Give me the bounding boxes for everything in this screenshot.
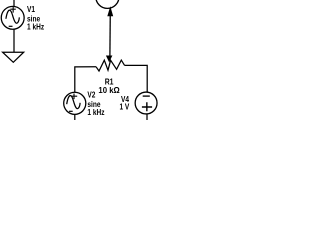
svg-text:1 V: 1 V [119,102,129,112]
wire V1 top stub [13,0,15,7]
wire R1 right vertical [125,65,148,92]
ground [3,52,24,62]
voltage source V4 (DC) [135,92,157,114]
wire V1 to ground [13,29,15,52]
wire R1 left vertical [75,67,96,92]
svg-text:1 kHz: 1 kHz [87,107,104,117]
svg-text:1 kHz: 1 kHz [27,22,44,32]
svg-text:10 kΩ: 10 kΩ [98,86,120,95]
wiper arrow (double-headed) [106,6,113,62]
wire V4 bottom stub [146,114,148,120]
resistor R1 zigzag [96,60,125,71]
terminal circle (top, cut off) [96,0,119,8]
voltage source V1 [1,6,24,29]
svg-text:V2: V2 [87,90,95,100]
voltage source V2 [64,92,86,114]
wire V2 bottom stub [74,114,76,120]
